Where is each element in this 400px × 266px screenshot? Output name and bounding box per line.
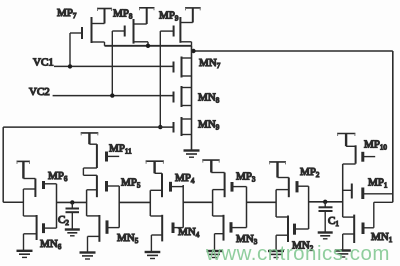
wire: mirror bus (MP7/MP8/MP9 drains) xyxy=(105,45,192,47)
junction dot bias line at stack rail xyxy=(191,49,195,53)
VDD stub T-bar for MP9 xyxy=(185,8,201,23)
svg-text:MP11: MP11 xyxy=(109,143,132,156)
wire: MP9 gate drop to MN9 gate / feedback xyxy=(159,31,161,127)
svg-text:MN9: MN9 xyxy=(198,119,220,132)
svg-text:MP9: MP9 xyxy=(159,10,179,23)
svg-text:MP4: MP4 xyxy=(175,172,195,185)
wire: stage D input to stage E output xyxy=(247,201,277,203)
ground C2 xyxy=(65,230,80,236)
wire VC2 xyxy=(53,95,174,97)
junction dot MP8 drain on bus xyxy=(146,44,150,48)
transistor MN1 xyxy=(343,215,374,251)
svg-text:C2: C2 xyxy=(58,214,69,227)
wire: stage E input to stage F output xyxy=(309,201,343,203)
transistor MP1 xyxy=(343,184,393,200)
svg-text:MP5: MP5 xyxy=(121,177,141,190)
wire: stage B output rail xyxy=(86,190,88,216)
wire: stage C output rail xyxy=(149,190,151,216)
ground for MN stack xyxy=(184,151,200,158)
transistor MP10 xyxy=(343,145,376,164)
transistor MP9 xyxy=(160,17,193,46)
wire: stage F input routing from bias line xyxy=(374,202,393,228)
svg-text:MN4: MN4 xyxy=(178,226,200,239)
wire: MP10 drain to MP1 source xyxy=(342,164,344,217)
VDD stub T-bar for MP8 xyxy=(139,8,155,24)
wire: MP8 gate drop to VC2 xyxy=(111,31,113,96)
wire: stage C input to stage D output xyxy=(183,201,212,203)
transistor MP4 xyxy=(150,173,183,197)
svg-text:MP6: MP6 xyxy=(48,170,68,183)
wire: stage A input rail xyxy=(56,184,58,228)
junction dot VC2/MP8 gate xyxy=(110,93,114,97)
svg-text:MP1: MP1 xyxy=(368,177,388,190)
transistor MN6 xyxy=(23,215,56,251)
ground stage F xyxy=(335,251,351,258)
svg-text:MP10: MP10 xyxy=(364,139,387,152)
ground C1 xyxy=(318,233,333,239)
transistor MP6 xyxy=(23,179,56,217)
svg-text:MN7: MN7 xyxy=(199,57,221,70)
wire: feedback tap at stage A output xyxy=(3,201,23,203)
wire: stage D input rail xyxy=(246,187,248,228)
VDD stub T-bar for MP7 xyxy=(97,9,112,24)
svg-text:MN5: MN5 xyxy=(117,232,139,245)
wire VC1 xyxy=(54,65,174,67)
svg-text:MN6: MN6 xyxy=(40,238,62,251)
ground stage E xyxy=(268,251,284,258)
VDD stub T-bar stage C xyxy=(146,161,164,173)
ground stage D xyxy=(207,251,223,258)
wire: stage D output rail xyxy=(212,190,214,216)
svg-text:MP8: MP8 xyxy=(113,8,133,21)
VDD stub T-bar stage D xyxy=(202,160,219,172)
transistor MP2 xyxy=(276,178,309,198)
svg-text:MP7: MP7 xyxy=(57,7,77,20)
wire: stage E output rail xyxy=(275,190,277,217)
wire: stage A input to stage B output xyxy=(57,201,87,203)
transistor MP8 xyxy=(112,19,148,46)
VDD stub T-bar stage E xyxy=(269,162,286,178)
wire: stage B input rail xyxy=(118,186,120,228)
junction dot VC1/MP7 gate xyxy=(68,64,72,68)
VDD stub T-bar stage B xyxy=(81,133,99,144)
junction dot feedback/MP9 gate xyxy=(158,125,162,129)
transistor MN4 xyxy=(150,215,183,252)
svg-text:VC1: VC1 xyxy=(33,57,54,69)
VDD stub T-bar stage A xyxy=(17,161,31,178)
transistor MN3 xyxy=(213,215,247,251)
ground stage C xyxy=(145,252,161,259)
wire: stage C input rail xyxy=(182,185,184,228)
junction dot C2 tap xyxy=(70,200,74,204)
transistor MN2 xyxy=(276,216,309,252)
transistor MN7 xyxy=(174,57,192,78)
capacitor C2 xyxy=(66,202,80,229)
wire: stage E input rail xyxy=(308,186,310,229)
svg-text:C1: C1 xyxy=(328,215,339,228)
svg-text:MN8: MN8 xyxy=(198,92,220,105)
ground stage B xyxy=(80,253,96,260)
transistor MP3 xyxy=(211,173,246,198)
transistor MP5 xyxy=(83,175,119,197)
svg-text:MP2: MP2 xyxy=(300,166,320,179)
svg-text:VC2: VC2 xyxy=(29,86,50,98)
VDD stub T-bar stage F xyxy=(337,134,355,147)
transistor MN5 xyxy=(87,215,120,252)
wire: MP7 gate drop to VC1 xyxy=(69,33,71,66)
wire: stage B input to stage C output xyxy=(119,201,150,203)
wire: bias line to right column xyxy=(192,51,393,202)
svg-text:MP3: MP3 xyxy=(236,171,256,184)
wire: stack drain rail xyxy=(191,46,193,151)
junction dot C1 tap xyxy=(323,200,327,204)
capacitor C1 xyxy=(319,202,333,233)
ground stage A xyxy=(17,251,33,258)
wire: feedback line from first stage output to MN9 gate xyxy=(3,127,173,202)
svg-text:www.cntronics.com: www.cntronics.com xyxy=(205,242,390,265)
transistor MP11 xyxy=(83,144,119,175)
transistor MN9 xyxy=(174,117,192,136)
transistor MP7 xyxy=(70,17,105,46)
transistor MN8 xyxy=(174,86,192,107)
